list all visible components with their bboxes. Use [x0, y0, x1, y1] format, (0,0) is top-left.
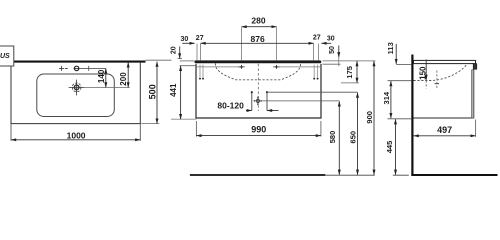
svg-text:80-120: 80-120 — [217, 101, 244, 111]
svg-text:650: 650 — [349, 131, 358, 144]
svg-text:314: 314 — [382, 91, 391, 104]
slab top extension right — [323, 60, 376, 62]
wall line (thick) — [411, 55, 413, 176]
slab bottom extension right — [323, 63, 341, 65]
svg-text:27: 27 — [196, 35, 204, 42]
dimension 140 line — [105, 68, 107, 87]
floor line (thick) — [190, 174, 325, 176]
svg-text:441: 441 — [169, 83, 178, 97]
svg-text:US: US — [0, 53, 10, 60]
supply hole reference lines — [197, 66, 321, 68]
extension drain left — [388, 80, 412, 82]
svg-text:900: 900 — [365, 111, 374, 124]
svg-text:200: 200 — [119, 72, 128, 86]
floor line right (thick) — [411, 174, 497, 176]
dimension 150 — [425, 59, 427, 80]
washbasin outer rectangle — [11, 63, 140, 124]
extension left for 1000 — [10, 124, 12, 141]
drain pipe dots — [251, 91, 253, 93]
svg-text:990: 990 — [251, 125, 266, 135]
svg-text:497: 497 — [437, 125, 452, 135]
cabinet side panel — [414, 70, 474, 118]
30/27 right outside arrow — [321, 42, 331, 44]
extension top right for 500 — [146, 59, 172, 61]
svg-text:876: 876 — [251, 34, 265, 44]
washbasin slab (filled bar) — [195, 60, 322, 63]
dimension 314 — [390, 81, 392, 118]
svg-text:445: 445 — [385, 141, 394, 154]
svg-text:113: 113 — [386, 42, 395, 54]
tap hole circle — [74, 66, 78, 70]
trap dashes — [436, 71, 438, 89]
cabinet front rectangle — [196, 64, 321, 118]
svg-text:27: 27 — [313, 35, 321, 42]
hidden bowl outline (dashed) — [216, 63, 301, 79]
supply hole cross left — [238, 65, 245, 69]
extension right for 1000 — [139, 124, 141, 141]
washbasin top wall line (thick) — [11, 61, 146, 63]
dimension 441 line — [180, 66, 182, 119]
dimension 900 — [373, 61, 375, 175]
dimension 1000 line — [11, 139, 140, 141]
tap hole cross left — [59, 66, 68, 71]
svg-text:30: 30 — [181, 36, 189, 43]
top row extension lines — [197, 44, 318, 61]
dimension 990 line — [196, 135, 321, 137]
dimension 175 — [356, 61, 358, 83]
floor extension thin right — [393, 174, 409, 176]
fixing lines below slab right — [314, 65, 317, 78]
dimension 200 line — [127, 62, 129, 87]
dimension 280 extension lines — [242, 27, 277, 60]
dimension 20 — [179, 47, 181, 59]
callout label box US — [0, 46, 14, 66]
80-120 dimension line with outside arrows — [246, 110, 252, 112]
30/27 left outside arrow — [182, 42, 194, 44]
extension 497 right — [475, 120, 477, 137]
extension bottom right for 500 — [141, 123, 159, 125]
svg-text:50: 50 — [329, 46, 336, 54]
basin front lip — [473, 64, 477, 70]
centerline (dashed) — [257, 64, 259, 111]
fixing lines below slab left — [200, 65, 203, 78]
dimension 990 extensions — [196, 121, 321, 137]
extension from right dot to 650 — [267, 91, 358, 93]
dimension 445 — [395, 119, 397, 175]
extension cabinet bottom left — [388, 118, 412, 120]
svg-text:280: 280 — [251, 16, 265, 26]
876 dimension line — [201, 42, 314, 44]
extension from trap to 580 — [263, 100, 340, 102]
svg-text:140: 140 — [97, 69, 106, 83]
svg-text:30: 30 — [327, 36, 335, 43]
dimension 280 line — [242, 26, 277, 28]
svg-text:150: 150 — [418, 66, 427, 80]
dimension 500 line — [156, 62, 158, 124]
dimension 497 line — [414, 135, 476, 137]
dimension 113 — [395, 44, 397, 64]
dimension 650 — [357, 93, 359, 175]
dimension 441 extensions — [180, 65, 197, 67]
dimension 50 — [338, 46, 340, 58]
drain centerline dashed — [425, 81, 427, 89]
floor extension thin — [325, 174, 374, 176]
supply hole cross right — [273, 65, 280, 69]
svg-text:500: 500 — [147, 84, 157, 99]
extension line drain to 200 dim — [85, 86, 130, 88]
svg-text:1000: 1000 — [67, 131, 86, 141]
adjustable trap symbol — [254, 97, 262, 105]
hidden bowl profile (dashed) — [414, 65, 467, 81]
dimension 580 — [338, 101, 340, 175]
basin bowl rounded rectangle — [37, 74, 115, 117]
washbasin slab side profile — [414, 60, 476, 63]
drain cross — [435, 83, 439, 85]
drain target symbol — [69, 80, 85, 96]
svg-text:175: 175 — [345, 66, 354, 79]
tap hole line and right cross — [79, 66, 106, 71]
cabinet front edge (gray) — [472, 70, 474, 118]
svg-text:20: 20 — [170, 46, 177, 54]
svg-text:580: 580 — [328, 131, 337, 144]
drain pipe verticals — [252, 92, 267, 110]
